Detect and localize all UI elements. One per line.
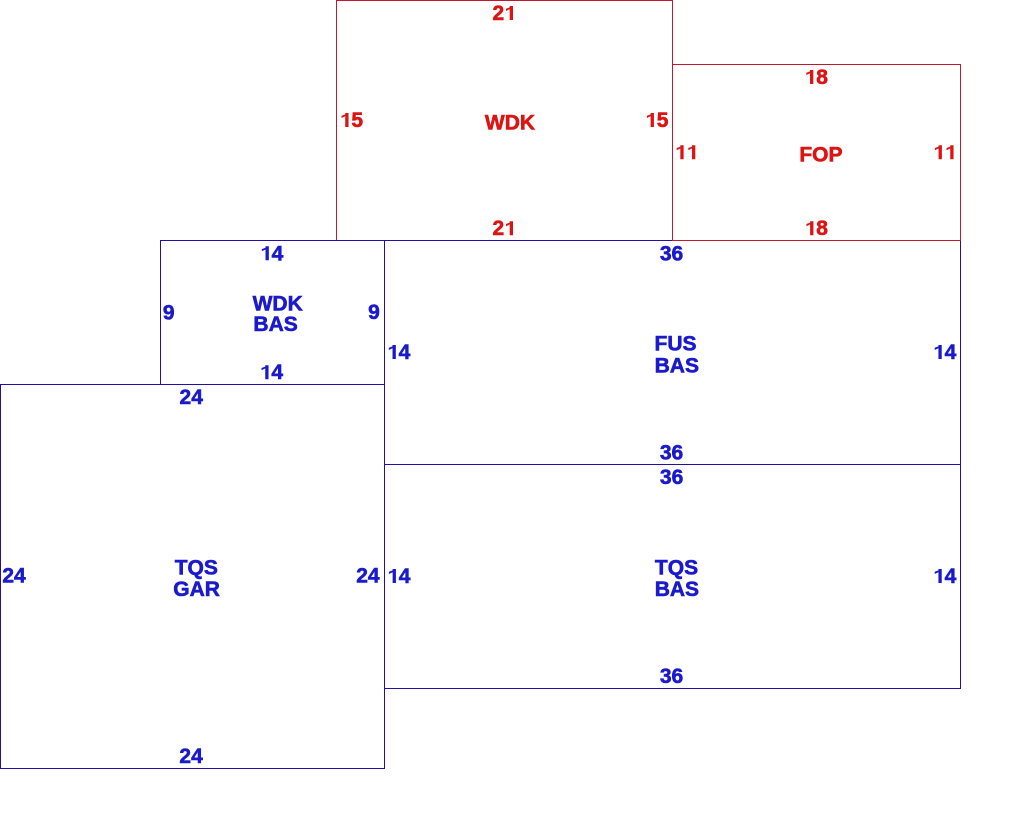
svg-text:36: 36 [660, 441, 683, 464]
svg-text:GAR: GAR [173, 578, 220, 601]
room WDK (wood deck) outline [337, 1, 673, 241]
svg-text:2: 2 [493, 217, 505, 240]
dim 14 right of FUS BAS [935, 341, 957, 364]
svg-text:5: 5 [657, 109, 669, 132]
svg-text:36: 36 [660, 242, 683, 265]
svg-text:24: 24 [356, 565, 380, 588]
svg-text:4: 4 [399, 341, 411, 364]
dim 14 left of FUS BAS [389, 341, 411, 364]
svg-text:24: 24 [2, 565, 26, 588]
svg-text:4: 4 [945, 565, 957, 588]
svg-text:5: 5 [351, 109, 363, 132]
svg-text:8: 8 [816, 217, 828, 240]
room TQS GAR outline [1, 385, 385, 769]
svg-text:4: 4 [399, 565, 411, 588]
svg-text:BAS: BAS [655, 354, 699, 377]
svg-text:WDK: WDK [485, 111, 535, 134]
room FOP outline [673, 65, 961, 241]
dim 11 right of FOP [935, 145, 954, 159]
svg-text:36: 36 [660, 665, 683, 688]
svg-text:BAS: BAS [655, 578, 699, 601]
svg-text:TQS: TQS [175, 557, 218, 580]
svg-text:BAS: BAS [253, 313, 297, 336]
dim 21 top of WDK [493, 2, 513, 25]
svg-text:4: 4 [945, 341, 957, 364]
dim 11 left of FOP [677, 145, 696, 159]
svg-text:2: 2 [493, 2, 505, 25]
dim 15 right of WDK [647, 109, 669, 132]
dim 15 left of WDK [342, 109, 364, 132]
svg-text:9: 9 [368, 301, 380, 324]
dim 14 left of TQS BAS [389, 565, 411, 588]
dim 14 right of TQS BAS [935, 565, 957, 588]
dim 18 bottom of FOP [806, 217, 828, 240]
dim 14 bottom of WDK BAS [262, 361, 284, 384]
svg-text:FOP: FOP [799, 143, 842, 166]
room WDK BAS outline [161, 241, 385, 385]
svg-text:TQS: TQS [655, 556, 698, 579]
svg-text:24: 24 [179, 745, 203, 768]
svg-text:8: 8 [816, 66, 828, 89]
svg-text:4: 4 [271, 361, 283, 384]
svg-text:9: 9 [163, 301, 175, 324]
dim 21 bottom of WDK [493, 217, 513, 240]
svg-text:4: 4 [272, 242, 284, 265]
svg-text:24: 24 [180, 386, 204, 409]
dim 14 top of WDK BAS [262, 242, 284, 265]
room TQS BAS outline [385, 465, 961, 689]
svg-text:FUS: FUS [655, 332, 697, 355]
svg-text:36: 36 [660, 466, 683, 489]
dim 18 top of FOP [806, 66, 828, 89]
room FUS BAS outline [385, 241, 961, 465]
